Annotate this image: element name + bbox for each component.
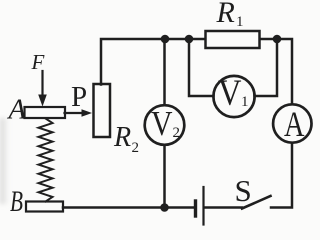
- svg-text:B: B: [10, 185, 23, 218]
- scan shading along left edge: [0, 118, 9, 204]
- svg-text:1: 1: [241, 94, 249, 110]
- wire: V1 right branch up to node at R1 right: [255, 39, 278, 96]
- resistor R1 body: [206, 31, 260, 48]
- svg-text:S: S: [235, 173, 252, 208]
- svg-text:P: P: [71, 81, 87, 113]
- svg-text:V: V: [151, 105, 173, 143]
- svg-text:R: R: [113, 122, 131, 153]
- wire: ammeter A bottom down and left to switch fixed contact: [271, 144, 292, 208]
- battery negative plate (short): [194, 201, 197, 216]
- wiper P arrowhead: [82, 109, 93, 117]
- svg-text:F: F: [31, 50, 45, 74]
- wire: V2 top branch: [163, 39, 166, 105]
- svg-text:A: A: [7, 94, 27, 126]
- svg-text:A: A: [284, 104, 305, 144]
- svg-text:V: V: [218, 73, 242, 114]
- svg-text:2: 2: [173, 125, 181, 141]
- junction node: R1 right / V1 right branch: [273, 35, 282, 44]
- voltmeter V2 body: [145, 105, 185, 145]
- svg-text:R: R: [216, 0, 235, 29]
- junction node: top rail / V1 left branch: [185, 35, 194, 44]
- svg-text:1: 1: [236, 14, 244, 30]
- switch S lever: [242, 196, 271, 209]
- wiper P arrow shaft (plate A to rheostat): [65, 112, 84, 114]
- wire: V1 left branch from node at top rail: [189, 39, 214, 96]
- wire: rheostat top up and along top rail to R1 left: [101, 39, 205, 85]
- spring between plate A and plate B: [39, 119, 53, 202]
- wire: R1 right along top rail and down to ammeter A top: [260, 39, 292, 103]
- rheostat R2 body: [94, 84, 111, 137]
- force F arrow shaft: [41, 71, 43, 96]
- plate B (bottom electrode of force sensor): [26, 202, 63, 212]
- plate A (top electrode of force sensor): [25, 107, 66, 118]
- junction node: top rail / V2 branch: [161, 35, 170, 44]
- ammeter A body: [273, 104, 311, 142]
- wire: bottom rail from plate B to battery: [63, 206, 194, 209]
- wire: battery to switch pivot: [205, 206, 243, 209]
- svg-text:2: 2: [132, 140, 140, 156]
- wire: V2 bottom branch: [163, 146, 166, 208]
- force F arrowhead: [38, 95, 47, 107]
- battery positive plate (long): [202, 187, 204, 225]
- voltmeter V1 body: [213, 76, 254, 117]
- junction node: bottom rail / V2 branch: [160, 203, 169, 212]
